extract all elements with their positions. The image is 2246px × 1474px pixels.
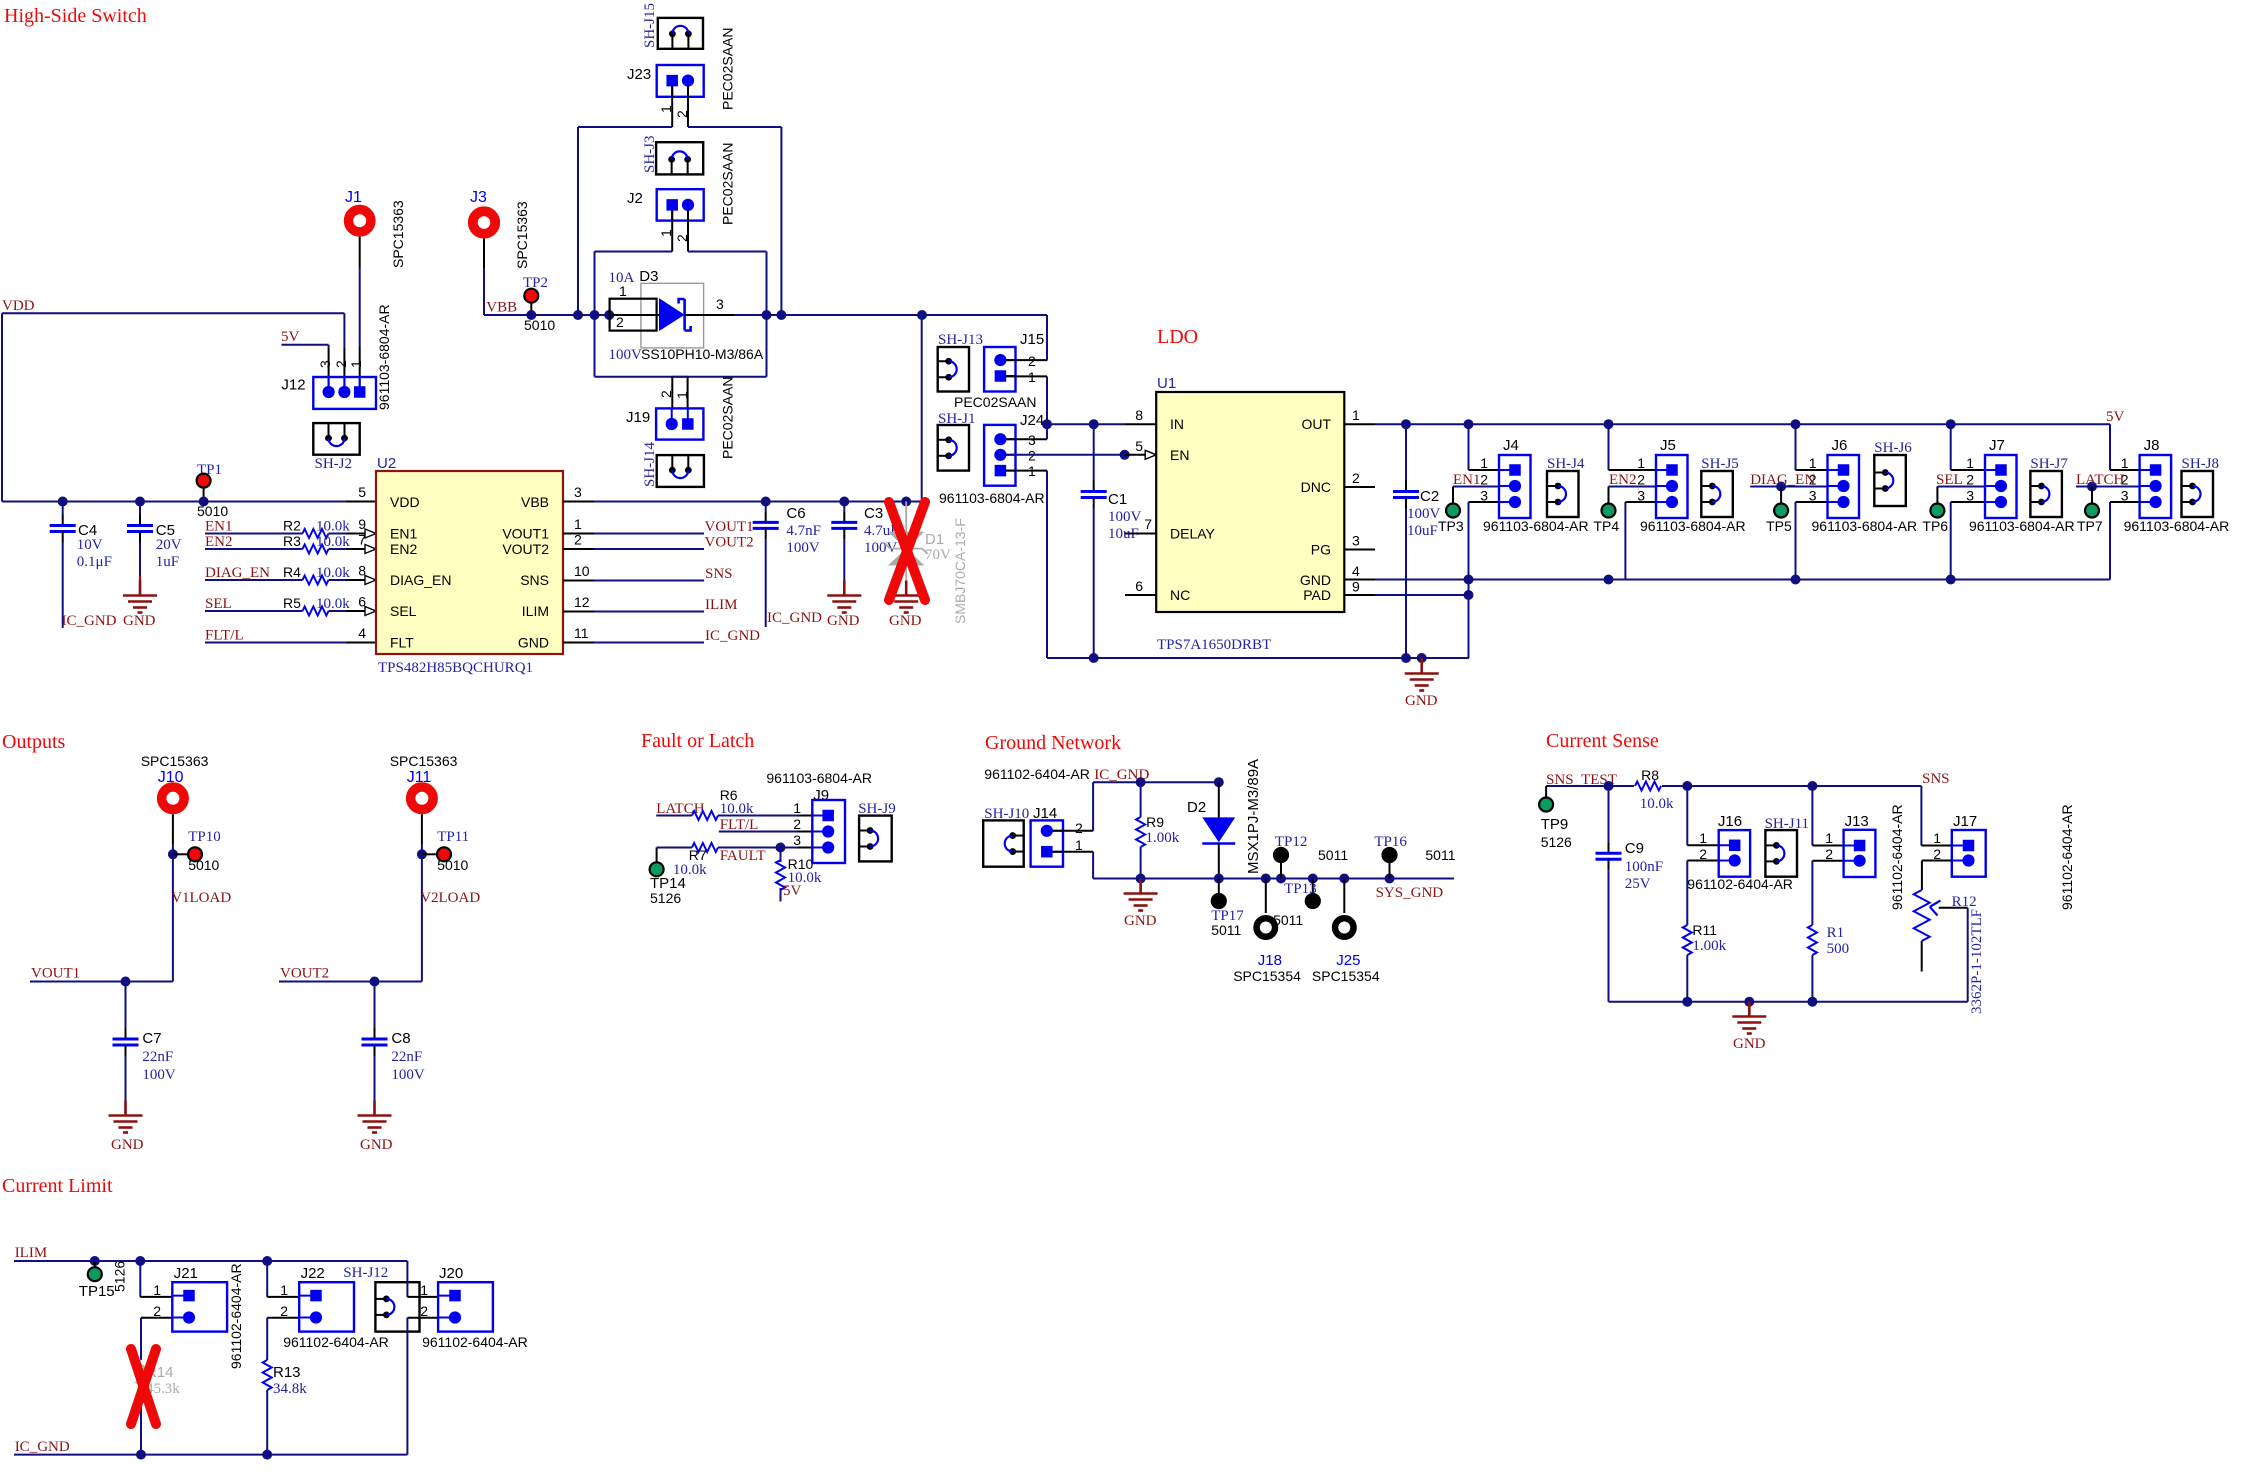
svg-text:FLT/L: FLT/L — [205, 628, 244, 644]
svg-text:J24: J24 — [1020, 412, 1044, 429]
svg-text:C3: C3 — [864, 505, 883, 522]
svg-text:10.0k: 10.0k — [1640, 796, 1674, 812]
svg-text:V2LOAD: V2LOAD — [420, 890, 480, 906]
svg-text:SYS_GND: SYS_GND — [1376, 885, 1444, 901]
svg-text:TP2: TP2 — [523, 275, 548, 291]
svg-text:J3: J3 — [470, 189, 487, 206]
svg-text:J19: J19 — [626, 409, 650, 426]
svg-text:PEC02SAAN: PEC02SAAN — [720, 143, 736, 225]
svg-text:961103-6804-AR: 961103-6804-AR — [1640, 518, 1746, 534]
svg-text:4: 4 — [1352, 563, 1360, 579]
svg-text:5126: 5126 — [1541, 834, 1572, 850]
svg-text:34.8k: 34.8k — [273, 1381, 307, 1397]
svg-text:Ground Network: Ground Network — [985, 732, 1121, 754]
svg-text:1: 1 — [1966, 455, 1974, 471]
svg-text:TPS482H85BQCHURQ1: TPS482H85BQCHURQ1 — [378, 660, 533, 676]
svg-text:LDO: LDO — [1157, 326, 1198, 348]
svg-text:R4: R4 — [283, 564, 301, 580]
svg-text:1.00k: 1.00k — [1692, 938, 1726, 954]
svg-text:V1LOAD: V1LOAD — [171, 890, 231, 906]
svg-text:DELAY: DELAY — [1170, 526, 1216, 542]
svg-text:1: 1 — [1699, 830, 1707, 846]
svg-text:U2: U2 — [377, 455, 396, 472]
svg-text:R3: R3 — [283, 533, 301, 549]
svg-text:100V: 100V — [1407, 506, 1441, 522]
svg-text:SH-J2: SH-J2 — [315, 456, 353, 472]
svg-text:D3: D3 — [639, 268, 658, 285]
svg-text:J20: J20 — [439, 1265, 463, 1282]
svg-text:VOUT2: VOUT2 — [705, 535, 754, 551]
svg-text:GND: GND — [123, 613, 156, 629]
svg-text:5011: 5011 — [1318, 847, 1348, 863]
svg-text:FLT: FLT — [390, 635, 414, 651]
svg-text:2: 2 — [1075, 820, 1083, 836]
svg-text:LATCH: LATCH — [2076, 472, 2125, 488]
svg-text:2: 2 — [1966, 472, 1974, 488]
svg-text:11: 11 — [574, 625, 589, 641]
svg-text:22nF: 22nF — [391, 1049, 422, 1065]
svg-text:D1: D1 — [925, 531, 944, 548]
svg-text:5126: 5126 — [650, 890, 681, 906]
svg-text:D2: D2 — [1187, 799, 1206, 816]
svg-text:2: 2 — [1637, 472, 1645, 488]
svg-text:1: 1 — [1637, 455, 1645, 471]
svg-text:EN: EN — [1170, 447, 1189, 463]
svg-text:TP11: TP11 — [437, 829, 469, 845]
svg-text:VOUT2: VOUT2 — [502, 541, 549, 557]
svg-text:1: 1 — [574, 516, 582, 532]
svg-text:22nF: 22nF — [142, 1049, 173, 1065]
svg-text:3: 3 — [1352, 533, 1360, 549]
svg-text:C6: C6 — [786, 505, 805, 522]
svg-text:10.0k: 10.0k — [316, 596, 350, 612]
svg-text:100V: 100V — [391, 1067, 425, 1083]
svg-text:10.0k: 10.0k — [720, 801, 754, 817]
svg-text:ILIM: ILIM — [522, 603, 549, 619]
svg-text:7: 7 — [1144, 516, 1152, 532]
svg-text:EN1: EN1 — [1453, 472, 1481, 488]
svg-text:NC: NC — [1170, 587, 1190, 603]
svg-text:J18: J18 — [1258, 952, 1282, 969]
svg-text:R8: R8 — [1641, 767, 1659, 783]
svg-text:J9: J9 — [813, 787, 829, 804]
svg-text:TPS7A1650DRBT: TPS7A1650DRBT — [1157, 637, 1271, 653]
svg-text:2: 2 — [1825, 846, 1833, 862]
svg-text:SH-J14: SH-J14 — [642, 441, 658, 487]
svg-text:FAULT: FAULT — [720, 848, 766, 864]
svg-text:961103-6804-AR: 961103-6804-AR — [766, 770, 872, 786]
svg-text:C1: C1 — [1108, 491, 1127, 508]
svg-text:961103-6804-AR: 961103-6804-AR — [376, 304, 392, 410]
svg-text:3: 3 — [1966, 488, 1974, 504]
svg-text:20V: 20V — [156, 537, 182, 553]
svg-text:5010: 5010 — [197, 503, 228, 519]
svg-text:TP5: TP5 — [1766, 518, 1792, 534]
svg-text:J1: J1 — [345, 189, 362, 206]
svg-text:SH-J15: SH-J15 — [642, 3, 658, 48]
svg-text:7: 7 — [358, 532, 366, 548]
svg-text:SH-J9: SH-J9 — [858, 801, 896, 817]
svg-text:R2: R2 — [283, 518, 301, 534]
svg-text:2: 2 — [333, 360, 349, 368]
svg-text:J13: J13 — [1845, 813, 1869, 830]
svg-text:8: 8 — [358, 563, 366, 579]
svg-text:IC_GND: IC_GND — [767, 610, 822, 626]
svg-text:J7: J7 — [1989, 437, 2005, 454]
svg-text:J2: J2 — [627, 190, 643, 207]
svg-text:MSX1PJ-M3/89A: MSX1PJ-M3/89A — [1245, 759, 1262, 874]
svg-text:IC_GND: IC_GND — [62, 613, 117, 629]
svg-text:2: 2 — [420, 1303, 428, 1319]
svg-text:1.00k: 1.00k — [1146, 830, 1180, 846]
svg-text:2: 2 — [1699, 846, 1707, 862]
svg-text:R9: R9 — [1146, 814, 1164, 830]
svg-text:VDD: VDD — [390, 494, 420, 510]
svg-text:5011: 5011 — [1425, 847, 1455, 863]
svg-text:1: 1 — [153, 1282, 161, 1298]
svg-text:TP12: TP12 — [1275, 834, 1308, 850]
svg-text:1: 1 — [674, 391, 690, 399]
svg-text:2: 2 — [1028, 353, 1036, 369]
svg-text:R13: R13 — [273, 1364, 301, 1381]
svg-text:GND: GND — [1733, 1036, 1766, 1052]
svg-text:2: 2 — [1480, 472, 1488, 488]
svg-text:5010: 5010 — [524, 317, 555, 333]
svg-text:SH-J8: SH-J8 — [2182, 456, 2220, 472]
svg-text:5: 5 — [358, 484, 366, 500]
svg-text:SH-J5: SH-J5 — [1701, 456, 1739, 472]
svg-text:J12: J12 — [281, 377, 305, 394]
svg-text:25V: 25V — [1625, 876, 1651, 892]
svg-text:100V: 100V — [609, 347, 643, 363]
svg-text:2: 2 — [793, 816, 801, 832]
svg-text:TP7: TP7 — [2077, 518, 2103, 534]
svg-text:10uF: 10uF — [1407, 523, 1438, 539]
svg-text:VOUT1: VOUT1 — [502, 526, 549, 542]
svg-text:PEC02SAAN: PEC02SAAN — [954, 394, 1036, 410]
svg-text:J15: J15 — [1020, 331, 1044, 348]
svg-text:1: 1 — [1933, 830, 1941, 846]
svg-text:VOUT1: VOUT1 — [31, 966, 80, 982]
svg-text:SH-J3: SH-J3 — [642, 135, 658, 173]
svg-text:3: 3 — [1809, 488, 1817, 504]
svg-text:C9: C9 — [1625, 840, 1644, 857]
svg-text:100V: 100V — [786, 540, 820, 556]
svg-text:J5: J5 — [1660, 437, 1676, 454]
svg-text:5V: 5V — [2106, 409, 2125, 425]
svg-text:4: 4 — [358, 625, 366, 641]
svg-text:3: 3 — [317, 360, 333, 368]
svg-text:SNS: SNS — [705, 566, 733, 582]
svg-text:SH-J12: SH-J12 — [343, 1265, 388, 1281]
svg-text:ILIM: ILIM — [15, 1245, 48, 1261]
svg-text:EN1: EN1 — [390, 526, 417, 542]
svg-text:4.7nF: 4.7nF — [786, 523, 821, 539]
svg-text:3: 3 — [793, 832, 801, 848]
svg-text:DIAG_EN: DIAG_EN — [390, 572, 451, 588]
svg-text:1: 1 — [1028, 463, 1036, 479]
svg-text:GND: GND — [111, 1137, 144, 1153]
svg-text:J16: J16 — [1718, 813, 1742, 830]
svg-text:IC_GND: IC_GND — [705, 628, 760, 644]
svg-text:IN: IN — [1170, 416, 1184, 432]
svg-text:6: 6 — [1135, 578, 1143, 594]
svg-text:DNC: DNC — [1301, 479, 1331, 495]
svg-text:J4: J4 — [1503, 437, 1519, 454]
svg-text:J8: J8 — [2144, 437, 2160, 454]
svg-text:VDD: VDD — [2, 298, 35, 314]
svg-text:SH-J10: SH-J10 — [984, 806, 1029, 822]
svg-text:100nF: 100nF — [1625, 859, 1663, 875]
svg-text:2: 2 — [674, 110, 690, 118]
svg-text:DIAG_EN: DIAG_EN — [205, 565, 270, 581]
svg-text:C8: C8 — [391, 1030, 410, 1047]
svg-text:SH-J4: SH-J4 — [1547, 456, 1585, 472]
svg-text:High-Side Switch: High-Side Switch — [4, 5, 147, 27]
svg-text:J22: J22 — [301, 1265, 325, 1282]
svg-text:SS10PH10-M3/86A: SS10PH10-M3/86A — [641, 346, 764, 362]
svg-text:1: 1 — [1825, 830, 1833, 846]
svg-text:EN2: EN2 — [390, 541, 417, 557]
svg-text:1: 1 — [420, 1282, 428, 1298]
svg-text:5: 5 — [1135, 438, 1143, 454]
svg-text:5126: 5126 — [112, 1261, 128, 1292]
svg-text:1: 1 — [793, 800, 801, 816]
svg-text:1: 1 — [2121, 455, 2129, 471]
svg-text:500: 500 — [1827, 941, 1850, 957]
svg-text:Outputs: Outputs — [2, 731, 66, 753]
svg-text:GND: GND — [1300, 572, 1331, 588]
svg-text:IC_GND: IC_GND — [15, 1439, 70, 1455]
svg-text:5010: 5010 — [188, 857, 219, 873]
svg-text:SPC15363: SPC15363 — [390, 753, 458, 769]
svg-text:VBB: VBB — [521, 494, 549, 510]
svg-text:961102-6404-AR: 961102-6404-AR — [1889, 804, 1905, 910]
svg-text:961102-6404-AR: 961102-6404-AR — [422, 1334, 528, 1350]
svg-text:3: 3 — [1028, 432, 1036, 448]
svg-text:J23: J23 — [627, 66, 651, 83]
svg-text:TP4: TP4 — [1594, 518, 1620, 534]
svg-text:1: 1 — [1352, 407, 1360, 423]
svg-text:GND: GND — [889, 613, 922, 629]
svg-text:5V: 5V — [783, 883, 802, 899]
svg-text:10: 10 — [574, 563, 590, 579]
svg-text:PEC02SAAN: PEC02SAAN — [720, 28, 736, 110]
svg-text:Fault or Latch: Fault or Latch — [641, 730, 754, 752]
svg-text:1: 1 — [658, 229, 674, 237]
svg-text:2: 2 — [674, 234, 690, 242]
svg-text:961102-6404-AR: 961102-6404-AR — [228, 1263, 244, 1369]
svg-text:U1: U1 — [1157, 375, 1176, 392]
svg-text:GND: GND — [1405, 693, 1438, 709]
svg-text:PAD: PAD — [1303, 587, 1331, 603]
svg-text:3: 3 — [1637, 488, 1645, 504]
svg-text:6: 6 — [358, 594, 366, 610]
svg-text:961102-6404-AR: 961102-6404-AR — [283, 1334, 389, 1350]
svg-text:70V: 70V — [925, 547, 951, 563]
svg-text:SH-J7: SH-J7 — [2030, 456, 2068, 472]
svg-text:ILIM: ILIM — [705, 597, 738, 613]
svg-text:TP3: TP3 — [1438, 518, 1464, 534]
svg-text:3: 3 — [2121, 488, 2129, 504]
svg-text:961103-6804-AR: 961103-6804-AR — [939, 490, 1045, 506]
svg-text:3362P-1-102TLF: 3362P-1-102TLF — [1969, 909, 1985, 1014]
svg-text:961102-6404-AR: 961102-6404-AR — [984, 766, 1090, 782]
svg-text:J6: J6 — [1832, 437, 1848, 454]
svg-text:TP9: TP9 — [1541, 816, 1569, 833]
svg-text:10.0k: 10.0k — [316, 565, 350, 581]
svg-text:GND: GND — [360, 1137, 393, 1153]
svg-text:SH-J1: SH-J1 — [938, 411, 976, 427]
svg-text:TP15: TP15 — [79, 1283, 115, 1300]
svg-text:1: 1 — [1480, 455, 1488, 471]
svg-text:8: 8 — [1135, 407, 1143, 423]
svg-text:9: 9 — [1352, 579, 1360, 595]
svg-text:SPC15363: SPC15363 — [390, 200, 406, 268]
svg-text:SPC15354: SPC15354 — [1233, 968, 1301, 984]
svg-text:2: 2 — [153, 1303, 161, 1319]
svg-text:EN2: EN2 — [1609, 472, 1637, 488]
svg-text:961102-6404-AR: 961102-6404-AR — [2059, 804, 2075, 910]
svg-text:VOUT2: VOUT2 — [280, 966, 329, 982]
svg-text:961102-6404-AR: 961102-6404-AR — [1687, 876, 1793, 892]
svg-text:SNS: SNS — [520, 572, 549, 588]
svg-text:5V: 5V — [281, 329, 300, 345]
svg-text:EN1: EN1 — [205, 519, 233, 535]
svg-text:TP10: TP10 — [188, 829, 221, 845]
svg-text:Current Limit: Current Limit — [2, 1175, 113, 1197]
svg-text:SNS: SNS — [1922, 771, 1950, 787]
svg-text:TP6: TP6 — [1922, 518, 1948, 534]
svg-text:SPC15363: SPC15363 — [141, 753, 209, 769]
svg-text:9: 9 — [358, 516, 366, 532]
svg-text:10A: 10A — [609, 270, 635, 286]
svg-text:GND: GND — [827, 613, 860, 629]
svg-text:961103-6804-AR: 961103-6804-AR — [1812, 518, 1918, 534]
svg-text:10.0k: 10.0k — [316, 534, 350, 550]
svg-text:1: 1 — [1809, 455, 1817, 471]
svg-text:PEC02SAAN: PEC02SAAN — [720, 377, 736, 459]
svg-text:5010: 5010 — [437, 857, 468, 873]
svg-text:DIAG_EN: DIAG_EN — [1750, 472, 1815, 488]
svg-text:R12: R12 — [1952, 894, 1977, 910]
svg-text:1: 1 — [280, 1282, 288, 1298]
svg-text:2: 2 — [658, 390, 674, 398]
svg-text:C7: C7 — [142, 1030, 161, 1047]
svg-text:3: 3 — [574, 484, 582, 500]
svg-text:GND: GND — [518, 635, 549, 651]
svg-text:3: 3 — [716, 296, 724, 312]
svg-text:1: 1 — [348, 360, 364, 368]
svg-text:SH-J6: SH-J6 — [1874, 440, 1912, 456]
svg-text:5011: 5011 — [1211, 922, 1241, 938]
svg-text:10V: 10V — [77, 537, 103, 553]
svg-text:10.0k: 10.0k — [316, 519, 350, 535]
svg-text:J25: J25 — [1336, 952, 1360, 969]
svg-text:SH-J11: SH-J11 — [1765, 816, 1809, 832]
svg-text:R11: R11 — [1692, 922, 1717, 938]
svg-text:SEL: SEL — [390, 603, 417, 619]
svg-text:EN2: EN2 — [205, 534, 233, 550]
svg-text:12: 12 — [574, 594, 590, 610]
svg-text:VBB: VBB — [486, 300, 517, 316]
svg-text:100V: 100V — [1108, 509, 1142, 525]
svg-text:C2: C2 — [1420, 488, 1439, 505]
svg-text:2: 2 — [616, 314, 624, 330]
svg-text:3: 3 — [1480, 488, 1488, 504]
svg-text:J17: J17 — [1953, 813, 1977, 830]
svg-text:OUT: OUT — [1301, 416, 1331, 432]
svg-text:Current Sense: Current Sense — [1546, 730, 1659, 752]
svg-text:961103-6804-AR: 961103-6804-AR — [1969, 518, 2075, 534]
svg-text:0.1μF: 0.1μF — [77, 554, 112, 570]
svg-text:2: 2 — [574, 532, 582, 548]
svg-text:1uF: 1uF — [156, 554, 179, 570]
svg-text:2: 2 — [1352, 470, 1360, 486]
svg-text:SEL: SEL — [205, 596, 232, 612]
svg-text:TP13: TP13 — [1284, 881, 1317, 897]
svg-text:GND: GND — [1124, 913, 1157, 929]
svg-text:SPC15363: SPC15363 — [514, 201, 530, 269]
svg-text:SEL: SEL — [1936, 472, 1963, 488]
svg-text:J21: J21 — [174, 1265, 198, 1282]
svg-text:VOUT1: VOUT1 — [705, 519, 754, 535]
svg-text:961103-6804-AR: 961103-6804-AR — [2124, 518, 2230, 534]
svg-text:2: 2 — [280, 1303, 288, 1319]
svg-text:100V: 100V — [142, 1067, 176, 1083]
svg-text:PG: PG — [1311, 542, 1331, 558]
svg-text:SH-J13: SH-J13 — [938, 332, 983, 348]
svg-text:R5: R5 — [283, 595, 301, 611]
svg-text:1: 1 — [1028, 369, 1036, 385]
svg-text:R7: R7 — [689, 847, 707, 863]
svg-text:SPC15354: SPC15354 — [1312, 968, 1380, 984]
svg-text:TP16: TP16 — [1374, 834, 1407, 850]
svg-text:1: 1 — [658, 105, 674, 113]
svg-text:R1: R1 — [1827, 925, 1845, 941]
svg-text:1: 1 — [1075, 837, 1083, 853]
svg-text:SMBJ70CA-13-F: SMBJ70CA-13-F — [952, 518, 968, 624]
svg-text:961103-6804-AR: 961103-6804-AR — [1483, 518, 1589, 534]
